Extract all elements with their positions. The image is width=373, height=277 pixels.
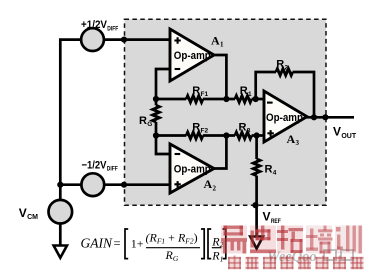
svg-text:Op-amp: Op-amp xyxy=(174,163,211,175)
svg-text:Op-amp: Op-amp xyxy=(266,112,303,124)
svg-text:+: + xyxy=(137,236,144,250)
svg-text:Op-amp: Op-amp xyxy=(174,50,211,62)
svg-text:GAIN: GAIN xyxy=(81,235,113,250)
svg-text:=: = xyxy=(114,236,121,250)
